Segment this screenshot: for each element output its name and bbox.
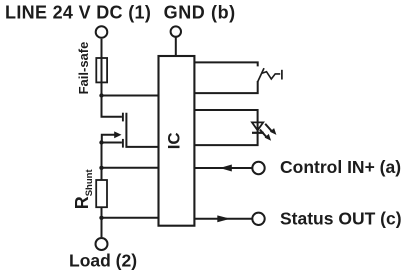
wire: GND terminal to IC top: [175, 37, 177, 56]
wire: switch loop bottom to IC: [194, 81, 257, 93]
node: source junction: [99, 140, 103, 144]
wire: LED loop bottom to IC: [194, 134, 257, 145]
switch S1 thermal actuator zigzag: [262, 72, 280, 79]
svg-text:Fail-safe: Fail-safe: [76, 42, 91, 95]
terminal GND (b): [171, 26, 181, 36]
transistor Q1 upper channel bar (drain): [122, 113, 124, 122]
fuse F1 (fail-safe): [96, 58, 107, 82]
transistor Q1 gate line to IC: [126, 113, 158, 147]
switch S1 blade: [258, 68, 264, 81]
node: junction below fuse: [99, 93, 103, 97]
svg-text:GND (b): GND (b): [164, 3, 236, 23]
wire: junction below R shunt to IC: [102, 217, 159, 219]
LED D1 emission arrow 1: [265, 124, 272, 132]
svg-text:Status OUT (c): Status OUT (c): [280, 209, 402, 229]
node: junction below R shunt: [99, 216, 103, 220]
resistor R shunt: [96, 180, 107, 207]
transistor Q1 lower channel bar (source): [122, 139, 124, 148]
switch S1 actuator end bar: [281, 70, 283, 80]
wire: LED loop top from IC: [194, 110, 257, 134]
svg-text:LINE 24 V DC (1): LINE 24 V DC (1): [5, 3, 151, 23]
svg-text:Load (2): Load (2): [69, 250, 137, 270]
wire: junction to IC left (supply): [102, 95, 159, 97]
LED D1 emission arrowhead 2: [265, 134, 272, 141]
svg-text:IC: IC: [165, 132, 184, 149]
wire: junction above R shunt to IC: [102, 167, 159, 169]
wire: Status OUT line: [194, 218, 251, 220]
wire: source lead to rail: [102, 143, 122, 180]
terminal Control IN+ (a): [252, 162, 264, 174]
svg-text:Control IN+ (a): Control IN+ (a): [280, 157, 401, 177]
LED D1 triangle: [252, 122, 263, 130]
wire: LINE terminal down through fuse to drain corner: [102, 39, 122, 117]
terminal Status OUT (c): [252, 213, 264, 225]
LED D1 emission arrowhead 1: [270, 128, 277, 135]
LED D1 emission arrow 2: [260, 130, 267, 138]
wire: switch loop top from IC: [194, 62, 257, 66]
Status OUT arrowhead (pointing right): [217, 215, 230, 222]
op-amp U1 / IC box: [159, 56, 195, 226]
terminal LINE 24V DC (1): [96, 26, 108, 38]
transistor Q1 substrate arrowhead: [114, 131, 121, 138]
wire: R shunt to Load terminal: [101, 207, 103, 237]
transistor Q1 substrate lead with hook to source node: [102, 135, 115, 143]
Control IN+ arrowhead (pointing left): [220, 165, 232, 172]
terminal Load (2): [96, 238, 108, 250]
node: junction above R shunt: [99, 166, 103, 170]
wire: Control IN+ line: [194, 167, 251, 169]
LED D1 cathode bar: [252, 132, 264, 134]
